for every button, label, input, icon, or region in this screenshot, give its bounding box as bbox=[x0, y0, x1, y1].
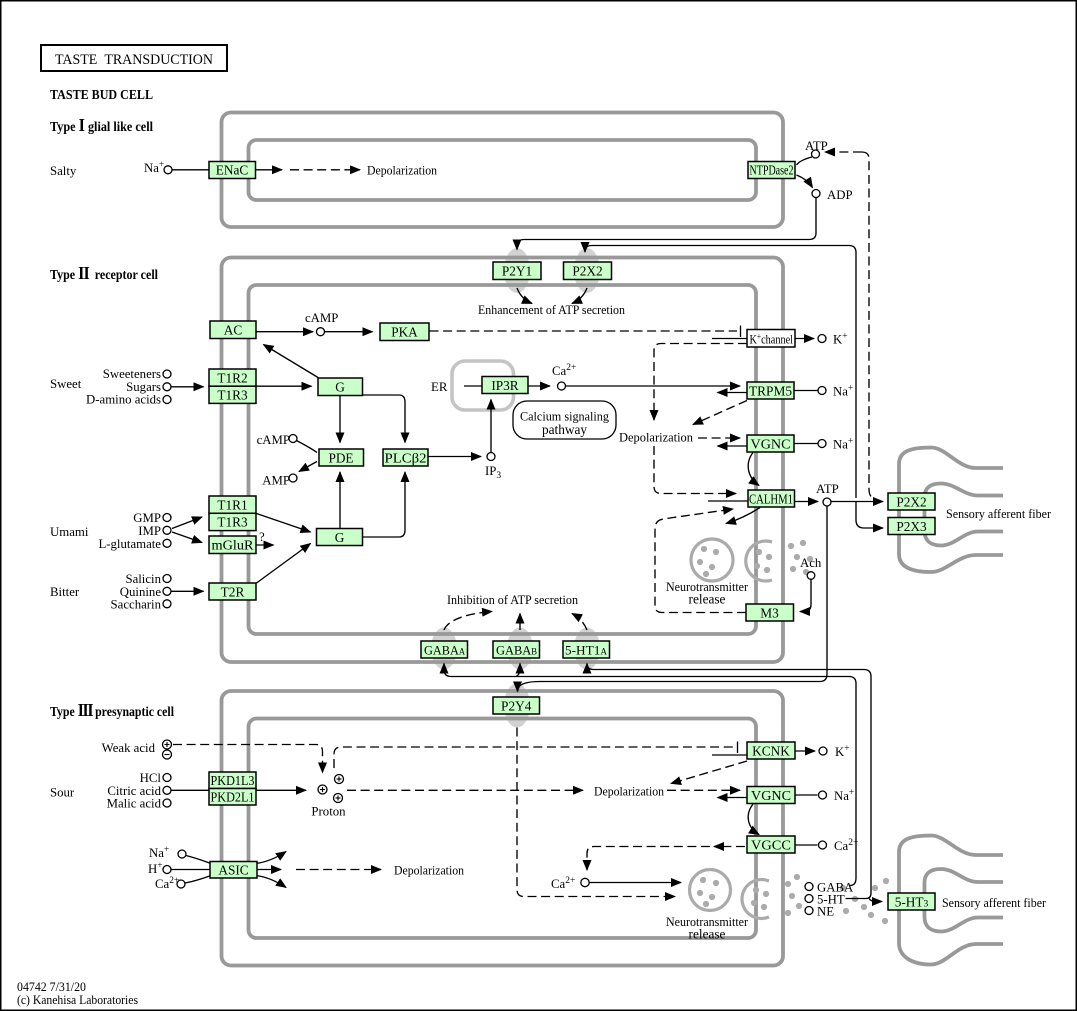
arrow AC to cAMP bbox=[257, 331, 314, 333]
wire stub into CALHM1 bbox=[708, 500, 748, 502]
enzyme AC bbox=[210, 321, 256, 339]
arrow ATP to P2X2 (fiber) bbox=[832, 501, 884, 503]
arrow sour to protons bbox=[172, 789, 307, 791]
dashed wire protons to KCNK inhibition bbox=[334, 747, 734, 768]
arrow P2X2 to enhancement text bbox=[572, 288, 587, 304]
dashed arrow Depolarization to VGNC (type III) bbox=[667, 789, 740, 791]
wire Ach to M3 bbox=[800, 580, 811, 612]
dashed arrow VGCC calcium inflow bbox=[714, 846, 745, 848]
svg-text:K+channel: K+channel bbox=[750, 332, 794, 347]
channel ENaC bbox=[209, 162, 256, 179]
wire Na+ to ENaC bbox=[172, 169, 209, 171]
node K+ (type II) bbox=[818, 335, 826, 343]
receptor T1R3 (umami) bbox=[209, 513, 256, 530]
arrow umami to mGluR bbox=[172, 532, 202, 543]
wire VGNC to Na+ (type III) bbox=[796, 794, 818, 796]
wire Ca2+ through ASIC bbox=[185, 876, 211, 884]
arrow G up to PDE bbox=[339, 472, 341, 528]
receptor 5-HT1A bbox=[563, 641, 610, 658]
svg-text:IP3R: IP3R bbox=[491, 378, 518, 393]
node Na+ (type III) bbox=[819, 791, 827, 799]
svg-text:Depolarization: Depolarization bbox=[594, 784, 664, 799]
svg-text:P2X3: P2X3 bbox=[896, 519, 927, 534]
type I cell outer membrane bbox=[222, 113, 784, 228]
svg-text:ER: ER bbox=[431, 380, 448, 394]
svg-text:cAMP: cAMP bbox=[305, 311, 338, 325]
node IP3 bbox=[487, 453, 495, 461]
node NE bbox=[805, 907, 813, 915]
transmitter dots near 5-HT3 bbox=[840, 878, 889, 924]
channel ASIC bbox=[210, 862, 257, 879]
receptor GABA A bbox=[421, 641, 468, 658]
dashed wire K+ channel to Depolarization bbox=[654, 344, 747, 421]
node D-amino acids bbox=[163, 396, 171, 404]
arrow IP3R to Ca2+ bbox=[529, 385, 551, 387]
svg-text:mGluR: mGluR bbox=[212, 538, 254, 553]
svg-text:TASTE BUD CELL: TASTE BUD CELL bbox=[50, 87, 153, 102]
dashed wire Depolarization to CALHM1 bbox=[654, 446, 736, 494]
receptor P2Y4 bbox=[493, 697, 540, 714]
arrow H+ out of ASIC bbox=[257, 869, 281, 871]
node malic acid bbox=[163, 799, 171, 807]
node cAMP (top) bbox=[317, 328, 325, 336]
arrow G to AC bbox=[264, 345, 319, 378]
svg-text:T1R2: T1R2 bbox=[217, 371, 247, 386]
vesicle (type III, left) bbox=[690, 870, 731, 911]
G protein (umami/bitter) bbox=[317, 529, 363, 546]
svg-text:NTPDase2: NTPDase2 bbox=[750, 163, 794, 178]
svg-text:?: ? bbox=[259, 530, 265, 544]
svg-text:PKA: PKA bbox=[391, 325, 418, 340]
proton node 2 bbox=[335, 775, 344, 784]
title box bbox=[41, 45, 227, 71]
node weak acid plus bbox=[163, 740, 172, 749]
channel VGCC bbox=[747, 836, 795, 853]
svg-text:PKD2L1: PKD2L1 bbox=[211, 790, 255, 805]
node GABA bbox=[805, 883, 813, 891]
receptor P2X3 (fiber) bbox=[888, 518, 935, 535]
fusing vesicle (type II, on membrane) bbox=[746, 541, 772, 581]
proton node 3 bbox=[334, 794, 343, 803]
wire TRPM5 to Na+ bbox=[795, 390, 818, 392]
svg-text:Salicin: Salicin bbox=[125, 572, 161, 586]
svg-text:IMP: IMP bbox=[138, 524, 161, 538]
svg-text:GABAB: GABAB bbox=[496, 643, 537, 658]
svg-text:GMP: GMP bbox=[133, 511, 161, 525]
receptor P2X2 (type II membrane) bbox=[564, 262, 612, 280]
arrow K+ channel to K+ bbox=[796, 338, 815, 340]
receptor P2X2 (fiber) bbox=[888, 493, 935, 510]
svg-text:Salty: Salty bbox=[50, 164, 77, 178]
type I cell inner membrane bbox=[249, 140, 757, 200]
svg-text:KCNK: KCNK bbox=[752, 744, 790, 759]
channel VGNC (type III) bbox=[747, 787, 795, 804]
channel VGNC (type II) bbox=[747, 435, 794, 452]
svg-text:Inhibition of ATP secretion: Inhibition of ATP secretion bbox=[447, 592, 578, 607]
arrow ENaC to depolarization bbox=[256, 169, 283, 171]
inhibition T-bar at K+ channel bbox=[740, 326, 742, 338]
svg-text:ATP: ATP bbox=[816, 482, 839, 496]
receptor P2Y1 bbox=[493, 262, 541, 280]
wire stub into K+ channel bbox=[712, 338, 747, 340]
released transmitter dots (type III) bbox=[785, 874, 802, 916]
svg-text:NE: NE bbox=[817, 905, 834, 919]
channel KCNK bbox=[747, 742, 795, 759]
svg-text:ASIC: ASIC bbox=[218, 863, 248, 878]
node Na+ (salty) bbox=[164, 166, 172, 174]
receptor 5-HT3 bbox=[888, 893, 935, 910]
channel IP3R bbox=[482, 377, 528, 394]
wire Na+ through ASIC bbox=[186, 856, 211, 864]
svg-text:Sensory afferent fiber: Sensory afferent fiber bbox=[942, 895, 1047, 910]
wire VGCC to Ca2+ bbox=[796, 844, 818, 846]
node weak acid minus bbox=[163, 750, 172, 759]
svg-text:P2X2: P2X2 bbox=[572, 264, 602, 279]
wire H+ through ASIC bbox=[171, 869, 210, 871]
svg-text:VGCC: VGCC bbox=[751, 838, 791, 853]
dashed wire VGCC to Ca2+ node bbox=[587, 847, 710, 871]
receptor T1R2 bbox=[209, 369, 256, 386]
wire stub into KCNK bbox=[712, 754, 747, 756]
arrow sugars to T1R2/T1R3 bbox=[172, 386, 204, 388]
wire GABA up to GABA A and GABA B bbox=[444, 664, 856, 879]
wire 5-HT junction bbox=[846, 893, 872, 899]
dashed arrow GABA A to inhibition bbox=[444, 612, 492, 631]
arrow VGNC to VGCC bbox=[748, 804, 759, 835]
node H+ (ASIC) bbox=[163, 866, 171, 874]
node Ca2+ (VGCC) bbox=[819, 841, 827, 849]
upper sensory afferent fiber bbox=[899, 448, 1003, 573]
dashed arrow Depolarization to VGNC bbox=[698, 437, 740, 439]
arrow T2R to G (umami) bbox=[257, 544, 311, 584]
svg-text:T2R: T2R bbox=[221, 585, 245, 600]
arrow NTPDase2 to ADP bbox=[797, 175, 813, 188]
svg-text:Sweet: Sweet bbox=[50, 377, 82, 391]
G protein (sweet) bbox=[318, 378, 363, 396]
wire ATP node up and left to P2X2 bbox=[585, 246, 856, 499]
channel TRPM5 bbox=[747, 382, 794, 399]
svg-text:(c) Kanehisa Laboratories: (c) Kanehisa Laboratories bbox=[17, 992, 138, 1007]
wire ATP branch to P2X3 bbox=[856, 502, 883, 529]
gray channel ellipse behind GABA B bbox=[507, 628, 533, 670]
arrow Ca2+ to vesicle bbox=[590, 882, 682, 884]
node citric acid bbox=[163, 786, 171, 794]
wire GABA up (to GABA receptors) bbox=[850, 878, 856, 886]
svg-text:T1R3: T1R3 bbox=[217, 388, 248, 403]
svg-text:ENaC: ENaC bbox=[216, 163, 249, 178]
node IMP bbox=[163, 526, 171, 534]
node L-glutamate bbox=[163, 539, 171, 547]
receptor mGluR bbox=[209, 536, 256, 554]
node ATP (type I) bbox=[812, 150, 820, 158]
wire VGNC to Na+ bbox=[795, 443, 818, 445]
svg-text:Sour: Sour bbox=[50, 786, 75, 800]
svg-text:Weak acid: Weak acid bbox=[102, 741, 156, 755]
dashed arrow protons to Depolarization (type III) bbox=[347, 789, 583, 791]
svg-text:Proton: Proton bbox=[311, 805, 346, 819]
svg-text:L-glutamate: L-glutamate bbox=[98, 537, 161, 551]
svg-text:T1R1: T1R1 bbox=[217, 498, 247, 513]
receptor GABA B bbox=[493, 641, 540, 658]
svg-text:TRPM5: TRPM5 bbox=[749, 384, 792, 399]
svg-text:release: release bbox=[689, 927, 726, 942]
node AMP bbox=[289, 474, 297, 482]
node Ca2+ (ER) bbox=[558, 382, 566, 390]
svg-text:PDE: PDE bbox=[328, 451, 353, 466]
svg-text:Malic acid: Malic acid bbox=[107, 797, 162, 811]
gray channel ellipse behind GABA A bbox=[431, 628, 457, 670]
svg-text:Sweeteners: Sweeteners bbox=[103, 367, 161, 381]
enzyme NTPDase2 bbox=[748, 162, 795, 179]
vesicle dots (type II fusing) bbox=[754, 549, 772, 573]
gray channel ellipse behind P2Y4 bbox=[504, 684, 530, 728]
svg-text:M3: M3 bbox=[760, 606, 779, 621]
svg-text:pathway: pathway bbox=[542, 422, 587, 437]
node sugars bbox=[163, 383, 171, 391]
wire G up to PLCb2 bottom bbox=[363, 472, 406, 537]
svg-text:TASTE TRANSDUCTION: TASTE TRANSDUCTION bbox=[55, 52, 213, 68]
wire ATP down to P2Y4 bbox=[519, 506, 827, 687]
type III cell outer membrane bbox=[222, 691, 784, 966]
type III cell inner membrane bbox=[249, 719, 757, 939]
node quinine bbox=[163, 587, 171, 595]
node Ca2+ (ASIC) bbox=[177, 880, 185, 888]
arrow T1R1/T1R3 to G (umami) bbox=[257, 514, 311, 533]
svg-text:Depolarization: Depolarization bbox=[619, 430, 693, 445]
arrow VGNC to CALHM1 bbox=[748, 453, 759, 486]
dashed arrow KCNK to Depolarization bbox=[671, 761, 747, 784]
receptor T1R3 bbox=[209, 386, 256, 403]
node Na+ (ASIC) bbox=[178, 850, 186, 858]
enzyme PLCb2 bbox=[383, 449, 428, 466]
arrow Ca2+ out of ASIC bbox=[256, 876, 286, 888]
svg-text:Umami: Umami bbox=[50, 525, 89, 539]
dashed arrow to Depolarization bbox=[290, 169, 360, 171]
svg-text:G: G bbox=[335, 380, 345, 395]
wire ER to IP3R bbox=[464, 385, 482, 387]
released Ach dots bbox=[788, 540, 813, 575]
node salicin bbox=[163, 575, 171, 583]
enzyme PDE bbox=[319, 449, 364, 466]
node Ca2+ (release site) bbox=[581, 878, 589, 886]
svg-text:HCl: HCl bbox=[140, 771, 162, 785]
node HCl bbox=[163, 774, 171, 782]
arrow P2Y1 to enhancement text bbox=[517, 288, 532, 304]
arrow umami to T1R1/T1R3 bbox=[172, 517, 202, 529]
svg-text:Enhancement of ATP secretion: Enhancement of ATP secretion bbox=[478, 302, 625, 317]
node ADP bbox=[812, 190, 820, 198]
dashed arrow GABA B to inhibition bbox=[519, 614, 521, 631]
arrow T1R2/T1R3 to G protein bbox=[257, 385, 312, 387]
svg-text:release: release bbox=[689, 592, 726, 607]
svg-text:PLCβ2: PLCβ2 bbox=[385, 451, 427, 466]
arrow Ca2+ to TRPM5 bbox=[566, 385, 740, 387]
svg-text:P2X2: P2X2 bbox=[896, 495, 926, 510]
svg-text:VGNC: VGNC bbox=[751, 437, 791, 452]
arrow TRPM5 ion inflow bbox=[718, 392, 748, 394]
dashed wire P2Y4 to vesicle bbox=[517, 728, 675, 897]
svg-text:CALHM1: CALHM1 bbox=[749, 492, 793, 507]
receptor T1R1 bbox=[209, 496, 256, 513]
node Na+ (VGNC) bbox=[818, 440, 826, 448]
svg-text:P2Y4: P2Y4 bbox=[501, 699, 532, 714]
arrow Na+ out of ASIC bbox=[256, 852, 286, 864]
gray channel ellipse behind 5-HT1A bbox=[574, 628, 600, 670]
ER bbox=[452, 361, 514, 410]
svg-text:D-amino acids: D-amino acids bbox=[86, 393, 161, 407]
arrow CALHM1 to neurotransmitter release bbox=[726, 508, 760, 524]
svg-text:ADP: ADP bbox=[827, 188, 853, 202]
fusing vesicle (type III, on membrane) bbox=[742, 879, 769, 918]
svg-text:T1R3: T1R3 bbox=[217, 515, 248, 530]
enzyme PKA bbox=[380, 323, 429, 341]
inhibition T-bar at KCNK bbox=[737, 742, 739, 754]
dashed wire weak acid to protons bbox=[173, 745, 323, 773]
wire branch to GABA B bbox=[516, 664, 520, 677]
arrow cAMP to PKA bbox=[325, 331, 373, 333]
type II cell outer membrane bbox=[222, 258, 784, 663]
svg-text:Depolarization: Depolarization bbox=[394, 863, 464, 878]
node Ach bbox=[807, 572, 815, 580]
node K+ (KCNK) bbox=[819, 747, 827, 755]
svg-text:AC: AC bbox=[224, 323, 243, 338]
arrow VGNC ion inflow bbox=[718, 445, 748, 447]
gray channel ellipse behind P2Y1 bbox=[504, 248, 530, 293]
arrow G down to PDE bbox=[339, 396, 341, 443]
channel CALHM1 bbox=[748, 490, 795, 507]
svg-text:AMP: AMP bbox=[262, 474, 290, 488]
svg-text:VGNC: VGNC bbox=[751, 788, 791, 803]
dashed wire corner and vertical to ATP node below bbox=[862, 152, 878, 501]
svg-text:Depolarization: Depolarization bbox=[367, 163, 437, 178]
vesicle (type II, left) bbox=[691, 539, 733, 581]
svg-text:G: G bbox=[335, 530, 345, 545]
proton node 1 bbox=[318, 785, 327, 794]
arrow PLCb2 to IP3 bbox=[429, 456, 482, 458]
arrow IP3 up to IP3R bbox=[490, 400, 492, 453]
channel PKD2L1 bbox=[209, 789, 256, 806]
arrow mGluR question bbox=[257, 544, 274, 546]
svg-text:Bitter: Bitter bbox=[50, 585, 80, 599]
wire ATP into NTPDase2 bbox=[797, 157, 813, 165]
svg-text:PKD1L3: PKD1L3 bbox=[211, 773, 255, 788]
dashed arrow TRPM5 to Depolarization bbox=[693, 401, 747, 425]
wire cAMP into PDE bbox=[297, 441, 318, 453]
vesicle dots (type II left) bbox=[697, 546, 719, 577]
node cAMP (at PDE) bbox=[289, 435, 297, 443]
dashed arrow 5-HT1A to inhibition bbox=[572, 614, 587, 631]
receptor M3 bbox=[746, 604, 794, 621]
arrow VGNC ion inflow (type III) bbox=[718, 797, 748, 799]
vesicle dots (type III fusing) bbox=[751, 887, 769, 910]
node Na+ (TRPM5) bbox=[818, 387, 826, 395]
svg-text:5-HT3: 5-HT3 bbox=[895, 895, 929, 910]
arrow CALHM1 to ATP bbox=[795, 501, 819, 503]
gray channel ellipse behind P2X2 bbox=[574, 248, 600, 293]
svg-text:Sensory afferent fiber: Sensory afferent fiber bbox=[946, 506, 1052, 521]
svg-text:Ach: Ach bbox=[800, 556, 822, 570]
dashed arrow ASIC to Depolarization bbox=[296, 869, 381, 871]
node GMP bbox=[163, 514, 171, 522]
node saccharin bbox=[163, 600, 171, 608]
dashed inhibition PKA to K+ channel bbox=[430, 330, 738, 332]
node sweeteners bbox=[163, 370, 171, 378]
lower sensory afferent fiber bbox=[899, 836, 1003, 965]
channel PKD1L3 bbox=[209, 772, 256, 789]
type II cell inner membrane bbox=[249, 285, 757, 634]
arrow KCNK to K+ bbox=[796, 750, 816, 752]
arrow PDE to AMP bbox=[299, 462, 317, 472]
svg-text:Saccharin: Saccharin bbox=[111, 598, 162, 612]
channel K+ channel bbox=[747, 330, 795, 348]
dashed arrow into ATP (from ATP released below) bbox=[825, 151, 862, 153]
node 5-HT bbox=[805, 895, 813, 903]
svg-text:cAMP: cAMP bbox=[257, 433, 290, 447]
vesicle dots (type III left) bbox=[697, 877, 719, 907]
dashed wire M3 to CALHM1 bbox=[655, 509, 746, 613]
receptor T2R bbox=[209, 583, 256, 600]
arrow 5-HT to 5-HT3 bbox=[869, 899, 882, 902]
arrow quinine to T2R bbox=[172, 590, 204, 592]
wire 5-HT up to 5-HT1A bbox=[587, 664, 871, 894]
Calcium signaling pathway box bbox=[513, 401, 616, 439]
node ATP (CALHM1) bbox=[823, 498, 831, 506]
wire ADP down and left to P2Y1 bbox=[517, 198, 816, 250]
wire G to PLCb2 top bbox=[363, 395, 406, 443]
svg-text:P2Y1: P2Y1 bbox=[502, 264, 532, 279]
